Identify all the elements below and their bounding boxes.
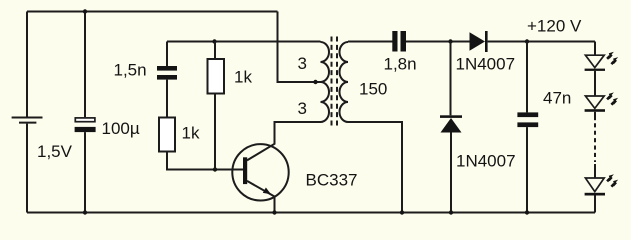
wire LED3 to rail [594, 196, 596, 213]
capacitor C4 47n [517, 112, 538, 127]
wire dashed LED chain continuation [594, 123, 596, 162]
svg-text:1,5n: 1,5n [114, 61, 147, 80]
wire 100u branch upper [84, 12, 86, 118]
diode D2 1N4007 [440, 115, 462, 132]
wire cap to diode [406, 41, 470, 43]
resistor R1 1k [208, 59, 225, 94]
transformer core [332, 37, 338, 127]
svg-text:3: 3 [298, 54, 307, 73]
LED D3 [585, 55, 605, 71]
wire base [167, 152, 243, 170]
wire shunt branch lower [450, 133, 452, 213]
junction emitter / rail [272, 210, 276, 214]
capacitor C2 1,5n [157, 66, 177, 80]
wire emitter [274, 197, 276, 213]
LED D5 [585, 178, 605, 196]
svg-text:1N4007: 1N4007 [456, 55, 516, 74]
svg-text:1,8n: 1,8n [384, 55, 417, 74]
svg-text:1N4007: 1N4007 [456, 152, 516, 171]
wire secondary top [348, 41, 393, 43]
junction bottom rail / 100u [83, 210, 87, 214]
diode D1 1N4007 [470, 31, 488, 52]
junction base / R1 [213, 167, 217, 171]
svg-text:1k: 1k [182, 124, 200, 143]
svg-text:1k: 1k [234, 68, 252, 87]
wire 100u branch lower [84, 132, 86, 212]
svg-text:BC337: BC337 [306, 171, 358, 190]
wire 47n branch upper [526, 42, 528, 113]
wire left branch lower [26, 124, 28, 213]
LED D4 light arrows [607, 92, 618, 104]
battery BT1 1,5V [12, 118, 43, 123]
svg-text:47n: 47n [543, 89, 571, 108]
wire diode to LED feed [488, 41, 595, 43]
junction shunt / rail [449, 210, 453, 214]
capacitor C3 1,8n [392, 31, 406, 52]
wire center tap [278, 12, 321, 83]
wire shunt branch upper [450, 42, 452, 116]
wire LED2 down solid stub [594, 112, 596, 120]
junction 47n / rail [525, 210, 529, 214]
transistor Q1 BC337 [232, 144, 288, 200]
wire secondary bottom [348, 122, 402, 213]
wire feedback top [167, 41, 321, 43]
svg-text:1,5V: 1,5V [37, 142, 73, 161]
LED D5 light arrows [607, 174, 618, 186]
junction 47n tap [525, 39, 529, 43]
wire 1,5n branch [166, 42, 168, 67]
wire left branch upper [26, 12, 28, 117]
svg-text:+120 V: +120 V [527, 17, 582, 36]
wire LED1 to LED2 [594, 71, 596, 96]
junction feedback / R1 [212, 39, 216, 43]
svg-text:150: 150 [359, 80, 387, 99]
svg-text:3: 3 [298, 99, 307, 118]
wire to LED3 [594, 164, 596, 178]
capacitor C1 100µ [75, 118, 96, 132]
transformer T1 primary winding [321, 42, 330, 122]
wire 47n branch lower [526, 127, 528, 212]
svg-text:100µ: 100µ [102, 119, 140, 138]
wire top rail [27, 11, 278, 13]
transformer T1 secondary winding [340, 42, 349, 122]
junction shunt tap [448, 39, 452, 43]
junction secondary / rail [400, 210, 404, 214]
junction center tap [313, 80, 317, 84]
wire collector [247, 122, 321, 160]
wire R1 top [214, 42, 216, 60]
wire R1 bottom [214, 94, 216, 170]
LED D3 light arrows [607, 52, 618, 64]
wire cap to R2 [166, 80, 168, 118]
resistor R2 1k [159, 118, 175, 152]
LED D4 [585, 96, 605, 112]
wire LED feed [594, 42, 596, 56]
junction top rail / 100u [83, 9, 87, 13]
wire bottom rail [27, 212, 595, 214]
